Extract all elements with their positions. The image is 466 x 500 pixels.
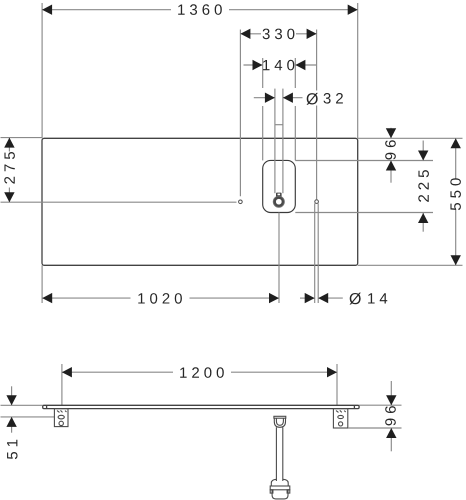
extension line 330 right	[316, 30, 318, 91]
extension line right edge above	[357, 3, 359, 138]
plate end cap left	[46, 405, 48, 408]
extension line 330 left	[239, 30, 241, 197]
extension line plate top to right	[359, 404, 401, 406]
dimension 51	[6, 386, 17, 459]
wall bracket left	[54, 409, 68, 427]
basin cutout slot	[263, 160, 296, 212]
extension line bracket bottom to right	[348, 427, 402, 429]
faucet hole edge line right	[282, 89, 284, 194]
extension line console bottom to right	[358, 264, 463, 266]
extension line diameter 14 right	[317, 203, 319, 303]
extension line 1200 left	[61, 364, 63, 405]
drain tailpiece nut	[274, 416, 286, 427]
dimension 96 (lower view)	[385, 381, 396, 451]
extension line drain centre down	[278, 213, 280, 304]
dimension 96 (top view)	[385, 128, 396, 183]
extension line diameter 14 left	[314, 203, 316, 303]
faucet hole edge line left	[274, 89, 276, 194]
dimension 275	[4, 138, 15, 203]
extension line basin top to right	[295, 160, 433, 162]
trap pipe	[276, 427, 282, 481]
fixing hole left	[239, 200, 243, 204]
dimension 1020	[42, 293, 279, 304]
extension line 140 left	[262, 58, 264, 88]
dimension 225	[418, 141, 429, 232]
extension line console top to right	[358, 137, 463, 139]
faucet hole tick	[275, 124, 283, 126]
trap cup	[272, 490, 288, 499]
overflow hole right	[315, 200, 319, 204]
extension line console top to left	[1, 137, 43, 139]
dimension diameter 14	[300, 293, 387, 305]
dimension 550	[450, 138, 461, 265]
dimension 140	[244, 60, 317, 71]
dimension diameter 32	[254, 93, 343, 105]
extension line left edge above	[41, 3, 43, 138]
console outline (top view)	[42, 138, 358, 265]
extension line 1200 right	[336, 364, 338, 405]
drain inner edge	[273, 196, 284, 207]
extension line drain centre to left	[1, 201, 237, 203]
wall bracket right	[333, 409, 347, 428]
dimension 330	[240, 29, 316, 40]
extension line bracket axis to left	[1, 416, 55, 418]
plate end cap right	[353, 405, 355, 408]
trap nut ring	[270, 486, 290, 493]
dimension 1200	[62, 367, 337, 378]
extension line left edge below	[41, 265, 43, 303]
dimension 1360	[42, 4, 358, 15]
extension line 140 right	[294, 58, 296, 88]
console plate (front view)	[43, 405, 359, 408]
extension line plate top to left	[1, 404, 43, 406]
drain ring	[275, 198, 283, 206]
extension line basin bottom to right	[295, 212, 433, 214]
drain tab	[276, 193, 282, 198]
trap collar	[271, 479, 288, 486]
